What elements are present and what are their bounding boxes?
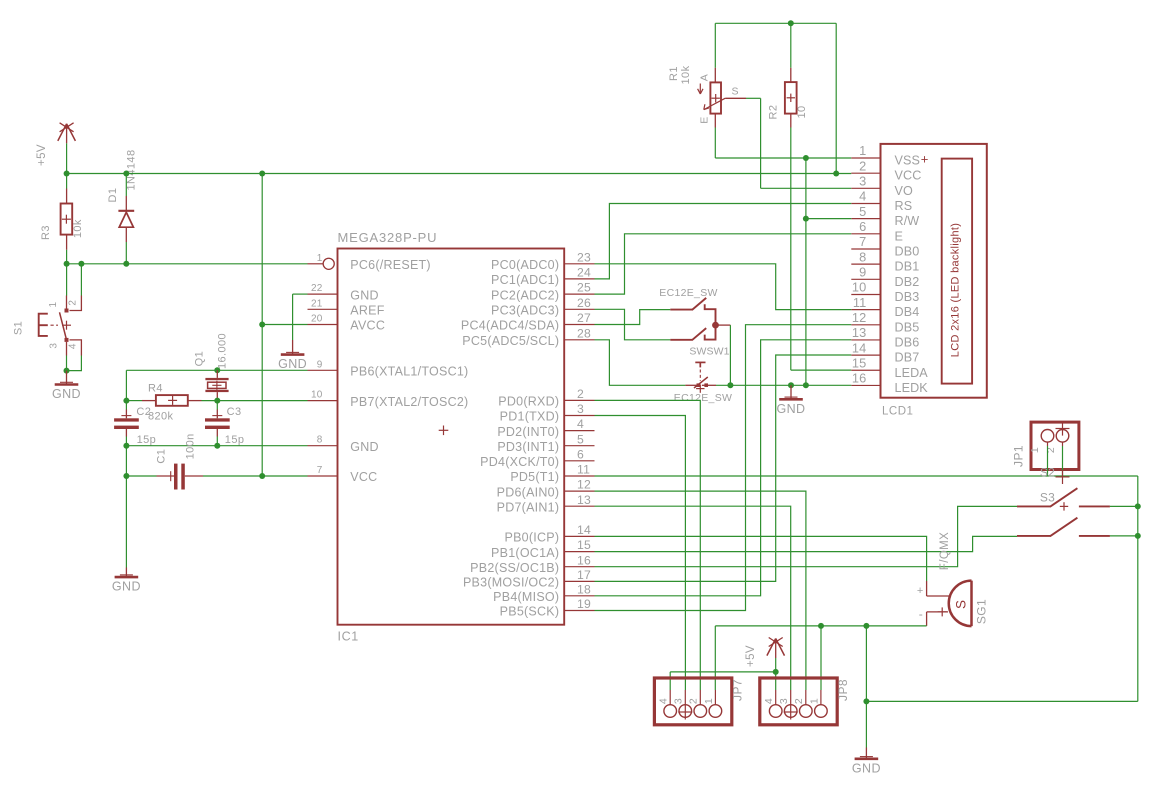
svg-text:4: 4 [577,417,584,431]
svg-text:DB1: DB1 [895,260,920,274]
wire encoder common to gnd [729,325,731,385]
svg-text:20: 20 [311,314,323,325]
svg-text:6: 6 [859,219,866,234]
junction S1 ground [64,368,70,374]
svg-text:16: 16 [577,553,591,567]
junction XTAL1/Q1 top [214,367,220,373]
svg-text:EC12E_SW: EC12E_SW [674,392,732,404]
junction rail/D1 [123,171,129,177]
svg-text:4: 4 [658,698,670,704]
wire PB5 to LCD DB5 [595,325,852,611]
wire SG1 plus lead [926,581,928,596]
op-amp IC1 MEGA328P-PU microcontroller [308,230,595,644]
wire PB0 to SG1 plus [595,536,927,581]
svg-text:+5V: +5V [36,144,48,166]
junction rail/AVCC branch [259,171,265,177]
wire GND net (pin 8 row) [126,437,307,477]
wire gnd row (LEDK) [716,384,851,386]
junction rail/R3 [64,171,70,177]
svg-text:PC3(ADC3): PC3(ADC3) [491,304,559,318]
svg-text:R1: R1 [668,66,680,81]
svg-text:VO: VO [895,184,913,198]
wire SG1 minus to gnd [866,612,926,626]
svg-text:VCC: VCC [350,470,377,484]
svg-text:1: 1 [317,253,323,264]
svg-text:LCD 2x16 (LED backlight): LCD 2x16 (LED backlight) [950,223,962,357]
svg-text:GND: GND [278,357,307,371]
svg-text:AREF: AREF [350,304,384,318]
wire reset net [67,264,308,296]
svg-text:9: 9 [317,359,323,370]
svg-text:DB5: DB5 [895,320,920,334]
wire S2 right to rail [1110,505,1138,507]
wire R2 bottom to LEDA [791,128,852,371]
svg-text:PD0(RXD): PD0(RXD) [498,395,559,409]
svg-text:9: 9 [859,265,866,280]
wire gnd bottom row [715,626,866,690]
svg-text:GND: GND [852,761,881,775]
svg-text:PC1(ADC1): PC1(ADC1) [491,273,559,287]
wire PC0 to LCD DB4 [595,264,852,310]
wire +5V stub [66,143,68,173]
svg-text:S: S [732,86,739,98]
capacitor C3 [205,406,244,446]
svg-text:+: + [921,151,929,166]
wire AVCC branch [262,324,307,326]
svg-text:15: 15 [852,355,867,370]
svg-text:5: 5 [577,432,584,446]
switch SW1 push contact (EC12E_SW) [674,362,732,404]
junction rail/S2 [1135,503,1141,509]
junction push switch/gnd [727,382,733,388]
svg-text:GND: GND [777,402,806,416]
svg-text:11: 11 [577,463,590,477]
svg-text:2: 2 [67,300,78,306]
wire PB1 to switch S3 [595,536,1018,551]
svg-text:PB4(MISO): PB4(MISO) [493,590,559,604]
svg-text:VCC: VCC [895,169,922,183]
svg-text:1: 1 [48,301,59,307]
svg-text:7: 7 [317,465,323,476]
svg-text:22: 22 [311,283,323,294]
svg-text:10: 10 [311,390,323,401]
ground (near LCD) [777,385,806,416]
wire PC4 to encoder A [595,310,671,325]
junction AVCC [259,322,265,328]
svg-text:JP8: JP8 [836,679,850,701]
wire PB2 to switch S2 [595,506,1018,566]
wire XTAL2 net [202,401,308,410]
junction gnd/C2 bottom [123,443,129,449]
svg-text:4: 4 [763,698,775,704]
svg-text:DB6: DB6 [895,335,920,349]
svg-text:E: E [895,229,904,243]
svg-text:+: + [917,585,924,597]
rotary encoder SW1 EC12E_SW [659,287,730,358]
svg-text:21: 21 [311,298,323,309]
svg-text:2: 2 [688,698,700,704]
svg-text:C3: C3 [227,406,242,418]
svg-text:5: 5 [859,204,866,219]
junction VSS column [803,155,809,161]
svg-text:1: 1 [703,698,715,704]
svg-text:S: S [954,600,969,609]
svg-text:LEDA: LEDA [895,366,929,380]
capacitor C2 [114,401,156,446]
svg-text:10k: 10k [680,65,692,84]
svg-text:C1: C1 [155,449,167,464]
svg-text:PB3(MOSI/OC2): PB3(MOSI/OC2) [463,576,559,590]
svg-text:23: 23 [577,250,591,264]
svg-text:PB5(SCK): PB5(SCK) [500,605,560,619]
junction +5V/JP8 pin4 [773,669,779,675]
svg-text:GND: GND [350,440,379,454]
wire S1 to ground [67,356,82,371]
svg-text:10: 10 [796,105,808,118]
svg-text:IC1: IC1 [338,630,359,644]
junction gnd column top [863,623,869,629]
svg-text:1: 1 [859,143,866,158]
junction top rail/R2 [788,20,794,26]
wire VSS-RW-gnd column [805,158,807,385]
wire PD0 to JP7 pin2 [595,400,701,690]
svg-text:25: 25 [577,281,591,295]
junction rail/S3 [1135,533,1141,539]
svg-text:S1: S1 [13,321,25,335]
wire left ground drop [125,476,127,568]
diode D1 [107,150,138,264]
supply +5V (top left) [36,123,76,166]
svg-text:8: 8 [859,249,866,264]
svg-text:13: 13 [577,493,591,507]
junction gnd/C3 bottom [214,443,220,449]
svg-text:13: 13 [852,325,867,340]
wire gnd column [865,626,867,748]
origin cross S2 [1040,466,1070,485]
svg-text:S3: S3 [1040,491,1055,505]
svg-text:LEDK: LEDK [895,381,929,395]
junction VCC [259,473,265,479]
wire S3 right to rail [1110,535,1138,537]
wire +5V to JP pins 4 [670,658,776,690]
svg-text:820k: 820k [148,410,174,422]
speaker SG1 [917,581,989,627]
junction bottom rail/gnd [863,698,869,704]
svg-text:12: 12 [577,478,591,492]
svg-text:28: 28 [577,326,591,340]
svg-text:PB7(XTAL2/TOSC2): PB7(XTAL2/TOSC2) [350,395,468,409]
svg-text:15p: 15p [137,434,157,446]
svg-text:+5V: +5V [745,645,757,667]
svg-text:S2: S2 [1040,466,1055,480]
wire PD7 to JP8 pin3 [595,506,791,690]
svg-text:RS: RS [895,199,913,213]
wire XTAL1 net [126,370,307,400]
svg-text:R4: R4 [148,383,163,395]
junction XTAL1/R4 left/C2 [123,398,129,404]
connector JP8 [760,678,850,725]
switch S3 (lower) [1017,518,1110,537]
svg-text:3: 3 [577,402,584,416]
svg-text:DB4: DB4 [895,305,920,319]
wire R/W row [806,218,851,220]
svg-text:E: E [699,116,711,123]
resistor R3 [40,174,84,264]
svg-text:10: 10 [852,280,867,295]
svg-text:GND: GND [112,580,141,594]
svg-text:PC0(ADC0): PC0(ADC0) [491,258,559,272]
svg-text:100n: 100n [184,433,196,459]
svg-text:11: 11 [853,295,867,310]
svg-text:PB6(XTAL1/TOSC1): PB6(XTAL1/TOSC1) [350,365,468,379]
svg-text:2: 2 [1045,447,1057,453]
svg-text:DB2: DB2 [895,275,920,289]
wire +5V vertical to AVCC and VCC [261,174,263,477]
junction R/W column [803,216,809,222]
ground (AVCC/pin22) [278,340,307,371]
svg-text:R/W: R/W [895,214,920,228]
svg-text:17: 17 [577,568,591,582]
ground (left rail) [112,568,141,594]
svg-text:15: 15 [577,538,591,552]
ground (bottom right) [852,748,881,776]
svg-text:R3: R3 [40,225,52,240]
junction gnd/VSS-RW column [803,382,809,388]
junction gnd/JP8 pin1 [818,623,824,629]
connector JP1 [1012,422,1079,470]
svg-text:12: 12 [852,310,867,325]
wire R1 wiper to VO [746,98,851,188]
svg-text:26: 26 [577,296,591,310]
svg-text:24: 24 [577,266,591,280]
svg-text:PD5(T1): PD5(T1) [510,470,559,484]
svg-text:PD6(AIN0): PD6(AIN0) [497,485,560,499]
wire PB4 to LCD DB6 [595,340,852,596]
svg-text:7: 7 [859,234,866,249]
svg-text:PD1(TXD): PD1(TXD) [500,410,560,424]
wire right rail [866,476,1137,701]
junction reset/R3 [64,261,70,267]
wire JP1 pin stubs [1048,446,1063,476]
svg-text:PD7(AIN1): PD7(AIN1) [497,500,560,514]
svg-text:4: 4 [859,189,866,204]
resistor R4 [142,383,202,423]
svg-text:C2: C2 [136,406,151,418]
svg-text:1N4148: 1N4148 [126,150,138,191]
wire top rail [715,23,836,173]
svg-text:3: 3 [778,698,790,704]
crystal Q1 [194,333,229,401]
svg-text:14: 14 [577,523,591,537]
connector JP7 [654,678,744,725]
svg-text:1: 1 [1029,447,1041,453]
svg-text:3: 3 [673,698,685,704]
svg-text:8: 8 [317,435,323,446]
svg-text:3: 3 [859,174,866,189]
svg-text:DB0: DB0 [895,244,920,258]
wire PC5 to push switch [595,340,686,386]
svg-text:14: 14 [852,340,867,355]
wire +5V rail [67,173,852,175]
switch S2 (upper) [1017,488,1110,510]
svg-text:2: 2 [577,387,584,401]
svg-text:R2: R2 [768,105,780,120]
svg-text:DB3: DB3 [895,290,920,304]
svg-text:EC12E_SW: EC12E_SW [659,287,717,299]
svg-text:PC5(ADC5/SCL): PC5(ADC5/SCL) [462,334,559,348]
svg-text:PD4(XCK/T0): PD4(XCK/T0) [480,455,559,469]
svg-text:PB2(SS/OC1B): PB2(SS/OC1B) [470,561,559,575]
svg-text:JP7: JP7 [730,679,744,701]
svg-text:GND: GND [52,387,81,401]
svg-text:LCD1: LCD1 [882,406,913,418]
svg-text:PB0(ICP): PB0(ICP) [505,531,560,545]
svg-text:GND: GND [350,288,379,302]
svg-text:F/QMX: F/QMX [939,532,951,570]
svg-text:VSS: VSS [895,154,921,168]
potentiometer R1 [668,65,746,127]
svg-text:2: 2 [859,158,866,173]
svg-text:18: 18 [577,582,591,596]
svg-text:SG1: SG1 [975,599,989,624]
wire PB3 to LCD DB7 [595,355,852,581]
wire PC2 to LCD E [595,234,852,294]
capacitor C1 [126,433,203,489]
wire PD1 to JP7 pin3 [595,416,686,691]
svg-text:16: 16 [852,371,867,386]
wire VCC row [203,475,308,477]
supply +5V (bottom) [745,638,785,667]
svg-text:AVCC: AVCC [350,319,385,333]
connector LCD1 (LCD 2x16) [851,143,987,417]
svg-text:16.000: 16.000 [217,333,229,369]
svg-text:JP1: JP1 [1012,445,1026,467]
svg-text:1: 1 [808,698,820,704]
resistor R2 [768,68,808,128]
ground (below S1) [52,371,81,402]
svg-text:27: 27 [577,311,591,325]
svg-text:PB1(OC1A): PB1(OC1A) [491,546,559,560]
wire PC3 to encoder B [595,309,671,340]
junction reset/D1 [123,261,129,267]
svg-text:MEGA328P-PU: MEGA328P-PU [338,230,438,245]
svg-text:Q1: Q1 [194,351,206,366]
svg-text:3: 3 [48,343,59,349]
svg-text:-: - [919,607,923,621]
svg-text:4: 4 [67,343,78,349]
svg-text:PC4(ADC4/SDA): PC4(ADC4/SDA) [461,319,559,333]
junction reset/S1-2 [78,261,84,267]
svg-text:A: A [699,74,711,81]
wire PD5 long row [595,475,1138,477]
junction +5V/LCD VCC [833,171,839,177]
svg-text:15p: 15p [225,434,245,446]
label F/QMX [939,532,951,570]
junction XTAL2/Q1 bottom [214,398,220,404]
svg-text:PD3(INT1): PD3(INT1) [497,440,559,454]
svg-text:6: 6 [577,447,584,461]
wire PC1 to LCD RS [595,204,852,279]
svg-text:PC2(ADC2): PC2(ADC2) [491,288,559,302]
svg-text:SWSW1: SWSW1 [689,346,729,358]
svg-text:10k: 10k [72,219,84,238]
svg-text:D1: D1 [107,188,119,203]
wire R1 bottom to VSS row [715,128,851,159]
wire PD6 to JP8 pin2 [595,491,806,690]
junction gnd symbol [788,382,794,388]
svg-text:19: 19 [577,597,591,611]
svg-text:PD2(INT0): PD2(INT0) [497,425,559,439]
junction gnd/C1 left [123,473,129,479]
wire pin22 to ground [293,294,308,340]
svg-text:2: 2 [793,698,805,704]
svg-text:PC6(/RESET): PC6(/RESET) [350,258,431,272]
svg-text:DB7: DB7 [895,351,920,365]
switch S1 [13,296,82,356]
